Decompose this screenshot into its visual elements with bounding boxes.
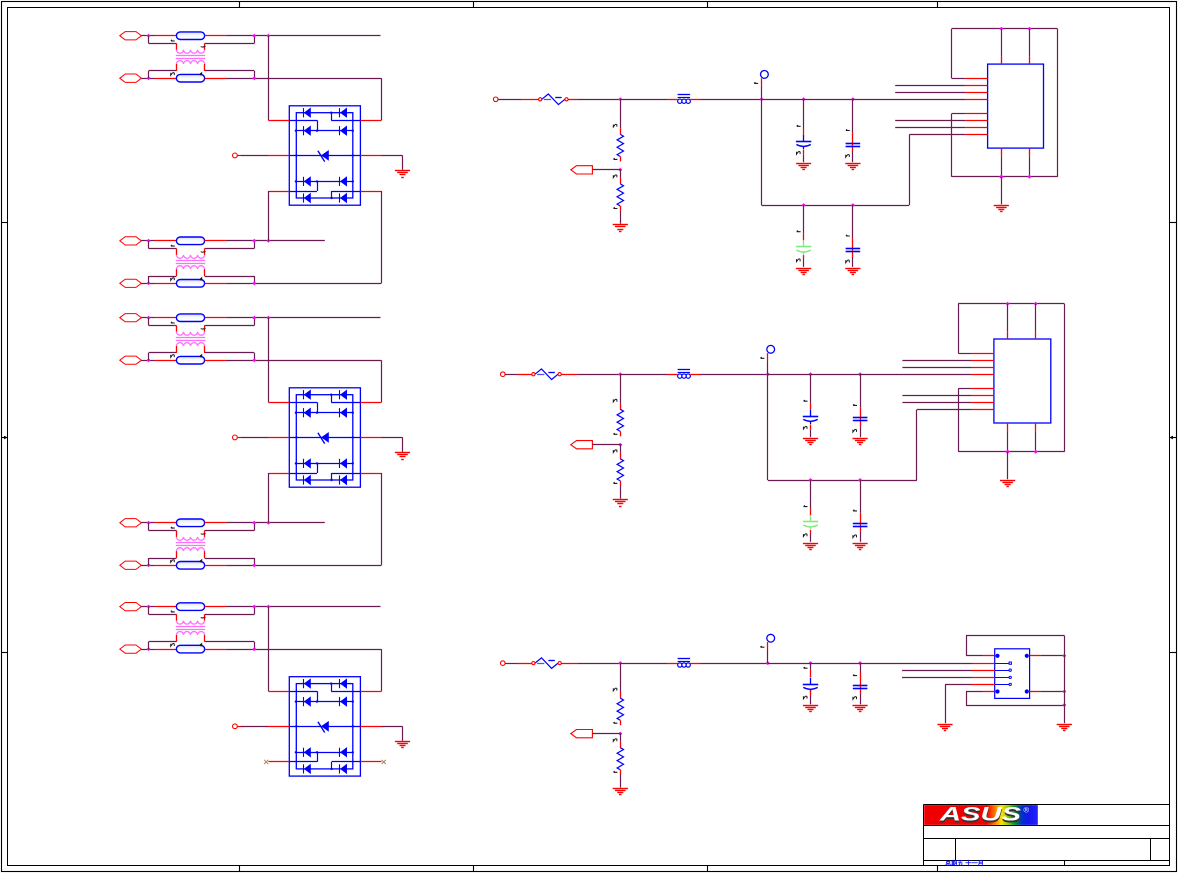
svg-text:总期五 十一月: 总期五 十一月 — [945, 859, 984, 867]
svg-text:ASUS: ASUS — [938, 805, 1021, 826]
svg-text:®: ® — [1024, 806, 1030, 815]
